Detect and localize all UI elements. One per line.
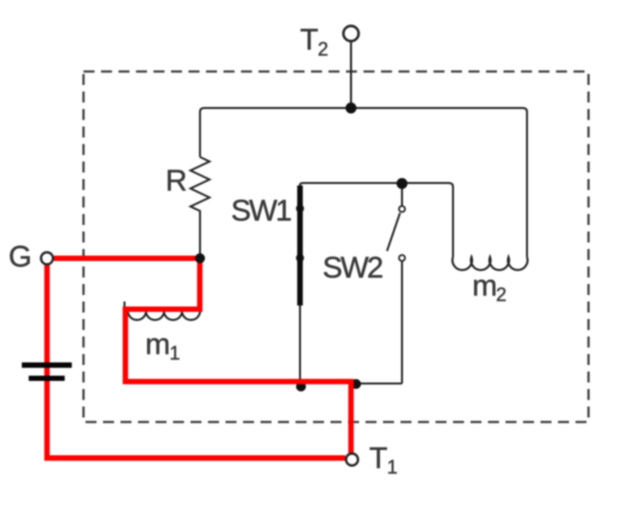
inductor m2 [452,257,527,270]
resistor R [191,157,210,256]
terminal T1 [346,454,358,466]
wire below SW1 [299,306,301,387]
svg-text:R: R [166,165,188,198]
svg-text:G: G [9,241,32,274]
inductor m1 corner stub [124,302,126,310]
svg-text:m: m [145,328,170,361]
switch SW2 stub from junction [401,186,403,206]
dashed enclosure box [84,72,589,423]
junction node SW rail [397,178,408,189]
svg-text:T: T [300,23,318,56]
terminal G [41,252,53,264]
svg-text:m: m [472,269,497,302]
junction node below SW1 [296,382,306,392]
svg-text:T: T [369,442,387,475]
switch SW1 closed bar [297,186,303,306]
svg-text:SW1: SW1 [231,195,291,228]
junction node top rail [346,103,357,114]
switch SW2 bottom contact [399,255,405,261]
svg-text:1: 1 [387,458,398,479]
inductor m1 [128,310,200,320]
switch SW2 open arm [387,213,400,251]
wire top rail with left and right drops [200,108,527,257]
terminal T2 [343,26,358,41]
svg-text:2: 2 [496,285,507,306]
svg-text:SW2: SW2 [323,252,383,285]
switch SW1 contact circles [297,205,303,211]
svg-text:2: 2 [318,39,329,60]
red wire G to m1 to T1 [54,258,351,453]
wire bottom link [353,383,402,385]
svg-text:1: 1 [170,344,181,365]
wire SW2 lower lead [401,262,403,384]
red wire G through battery to T1 [47,265,345,459]
junction node at red corner [351,379,361,389]
switch SW2 top contact [399,206,405,212]
battery long plate [22,362,72,367]
wire T2 lead [350,42,352,109]
wire SW rail with right drop to m2 [300,183,453,257]
battery short plate [29,376,65,381]
junction node R/m1 [195,253,205,263]
